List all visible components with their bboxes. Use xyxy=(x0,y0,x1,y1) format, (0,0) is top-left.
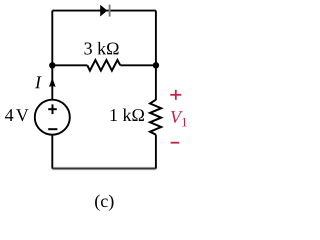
label 1 kOhm xyxy=(111,109,144,121)
resistor 1 kOhm zigzag xyxy=(150,100,161,135)
diode D1 triangle xyxy=(100,5,107,17)
source minus sign xyxy=(48,128,57,130)
label 4 V xyxy=(5,109,29,121)
node A junction dot left xyxy=(49,62,55,68)
wire left vertical upper xyxy=(51,11,53,100)
resistor 3 kOhm zigzag xyxy=(87,60,120,71)
label minus red xyxy=(171,142,180,144)
wire right vertical lower xyxy=(155,135,157,169)
source V1 circle xyxy=(35,100,70,135)
label 3 kOhm xyxy=(84,42,118,55)
node B junction dot right xyxy=(153,62,159,68)
source plus sign xyxy=(48,104,57,114)
label (c) xyxy=(95,195,113,211)
label I xyxy=(35,76,42,88)
wire middle branch right stub xyxy=(120,64,156,66)
wire bottom branch xyxy=(52,168,156,170)
wire left vertical lower xyxy=(51,135,53,169)
wire top branch xyxy=(52,10,156,12)
current arrow I head xyxy=(49,78,56,87)
diode D1 cathode bar xyxy=(109,5,111,17)
wire middle branch left stub xyxy=(52,64,87,66)
label V1 xyxy=(171,111,187,126)
label plus red xyxy=(170,90,181,100)
wire right vertical upper xyxy=(155,11,157,100)
